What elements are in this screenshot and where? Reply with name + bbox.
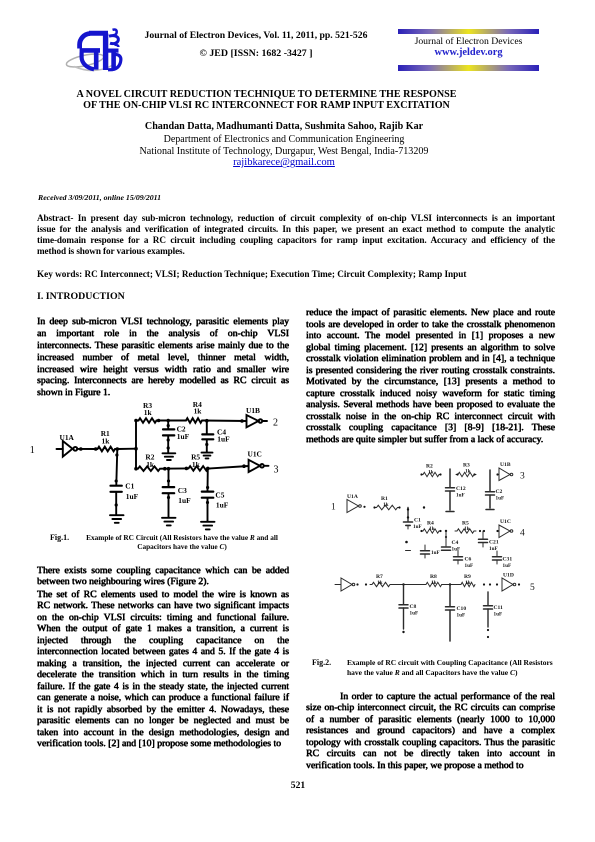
node dot U2A output (356, 583, 358, 585)
node dot C2 tap (166, 419, 170, 423)
node dot U1A output (363, 506, 365, 508)
ground below C3 (162, 518, 176, 526)
received line (38, 193, 161, 202)
right banner title (398, 36, 539, 47)
coupling capacitor C21 (482, 531, 484, 539)
section heading I. INTRODUCTION (37, 291, 125, 302)
right banner url (398, 47, 539, 58)
svg-text:U1A: U1A (60, 433, 75, 442)
ground below C5 (201, 522, 215, 530)
node dot row B b (483, 530, 485, 532)
node dot R2 right (439, 473, 441, 475)
svg-text:1uF: 1uF (178, 496, 191, 505)
node dot C3 tap (167, 467, 171, 471)
node dot R2 left (420, 473, 422, 475)
node dot below C11 a (487, 629, 489, 631)
svg-text:U1B: U1B (246, 406, 260, 415)
svg-text:C12: C12 (456, 486, 466, 492)
svg-text:C8: C8 (410, 604, 417, 610)
op-amp buffer U1B (499, 468, 510, 481)
wire R3 to R4 (158, 420, 185, 422)
svg-text:C11: C11 (494, 605, 504, 611)
op-amp buffer U1B (247, 415, 259, 427)
svg-text:C3: C3 (178, 486, 187, 495)
left column paragraph 2 (37, 565, 289, 588)
svg-text:C1: C1 (414, 518, 421, 524)
op-amp buffer U2A (bottom line driver) (335, 584, 341, 586)
svg-text:3: 3 (520, 472, 525, 482)
wire R1 to riser (118, 448, 137, 450)
svg-text:1uF: 1uF (494, 612, 503, 618)
email (25, 157, 543, 168)
op-amp buffer U1C (499, 525, 510, 538)
resistor R3 (456, 472, 476, 476)
resistor R1 (95, 447, 118, 452)
svg-text:C4: C4 (452, 540, 459, 546)
node dot wire c (496, 583, 498, 585)
node dot R3 right (473, 473, 475, 475)
svg-text:1uF: 1uF (410, 611, 419, 617)
op-amp buffer U1A (347, 500, 359, 513)
node dot riser bottom (134, 467, 138, 471)
svg-text:3: 3 (274, 465, 279, 476)
svg-text:1k: 1k (428, 470, 434, 476)
node dot U1B input (240, 419, 244, 423)
resistor R4 (185, 418, 204, 423)
op-amp buffer U1C (249, 460, 260, 472)
right column paragraph 1 (306, 307, 555, 445)
node dot U1C input (242, 464, 246, 468)
node dot R1 left (373, 506, 375, 508)
svg-text:1uF: 1uF (456, 493, 465, 499)
resistor R5 (455, 529, 476, 533)
svg-text:U1C: U1C (500, 519, 511, 525)
node dot R3 right (157, 419, 161, 423)
wire riser vertical (135, 421, 137, 469)
node dot R2 right (163, 467, 167, 471)
svg-text:1k: 1k (465, 580, 471, 586)
resistor R2 (136, 466, 162, 471)
svg-text:C10: C10 (457, 606, 467, 612)
logo blue glyph (80, 29, 121, 70)
node dot C4 tap (205, 419, 209, 423)
wire U1C output to node 3 (264, 465, 269, 467)
left column paragraph 1 (37, 316, 289, 399)
svg-text:1k: 1k (429, 526, 435, 532)
node dot row B a (479, 530, 481, 532)
node dot wire a (483, 583, 485, 585)
svg-text:1k: 1k (383, 502, 389, 508)
node dot C5 tap (206, 467, 210, 471)
header line 2 (100, 48, 412, 59)
figure 1: RC circuit schematic (25, 398, 295, 533)
page number (288, 780, 308, 791)
ground below C1 (110, 515, 124, 523)
svg-text:U1C: U1C (248, 450, 262, 459)
svg-text:1uF: 1uF (496, 496, 505, 502)
wire R7 to R8 (392, 584, 424, 586)
abstract (37, 213, 555, 257)
wire input stub node 1 (57, 448, 63, 450)
capacitor C2 (489, 470, 491, 491)
capacitor C2 (167, 421, 169, 429)
wire U1A output (77, 448, 95, 450)
svg-text:C21: C21 (489, 540, 499, 546)
resistor R9 (459, 582, 475, 586)
resistor R7 (370, 582, 392, 586)
svg-text:U1D: U1D (503, 573, 514, 579)
svg-text:1uF: 1uF (217, 434, 230, 443)
svg-text:1uF: 1uF (216, 501, 229, 510)
node dot C8 tap (402, 583, 404, 585)
ground tick below C1 (406, 550, 411, 552)
affiliation 2 (25, 146, 543, 157)
svg-text:1uF: 1uF (503, 563, 512, 569)
svg-text:C2: C2 (496, 489, 503, 495)
svg-text:C1: C1 (125, 482, 134, 491)
node dot R4 left (420, 530, 422, 532)
header line 1 (100, 30, 412, 41)
svg-text:C31: C31 (503, 557, 513, 563)
svg-text:1uF: 1uF (413, 524, 422, 530)
capacitor C4 (445, 531, 447, 546)
ground below C4 (202, 453, 213, 459)
op-amp buffer U1A (63, 441, 73, 457)
capacitor C4 (206, 421, 208, 434)
svg-text:1k: 1k (102, 437, 111, 446)
ground bar below C2 (486, 509, 494, 511)
figure 2: RC circuit with coupling capacitance schematic (325, 452, 540, 652)
left column paragraph 3 (37, 589, 289, 750)
svg-text:5: 5 (530, 583, 535, 593)
capacitor C1 (116, 449, 117, 485)
capacitor C3 (left small) (424, 545, 426, 550)
svg-text:1k: 1k (465, 469, 471, 475)
node dot U1D output (518, 583, 520, 585)
capacitor C10 (449, 585, 451, 607)
node dot below C1 (405, 541, 408, 544)
node dot riser junction (134, 447, 138, 451)
node dot U1A output (79, 447, 83, 451)
node dot wire b (489, 583, 491, 585)
ground below C2 (163, 453, 176, 460)
svg-text:4: 4 (520, 529, 525, 539)
capacitor C3 (168, 469, 170, 486)
svg-text:C5: C5 (215, 490, 224, 499)
right column paragraph 2 (306, 691, 555, 772)
svg-text:1uF: 1uF (177, 432, 190, 441)
wire R4 to U1B (204, 420, 247, 423)
svg-text:1k: 1k (431, 580, 437, 586)
capacitor C6 (457, 551, 459, 556)
node dot riser top (134, 419, 138, 423)
right banner top gradient bar (398, 29, 539, 34)
coupling capacitor C12 (449, 469, 451, 487)
node dot R4 right (439, 530, 441, 532)
resistor R3 (137, 418, 158, 423)
wire R5 to U1C (210, 466, 249, 468)
capacitor C11 (487, 592, 489, 605)
svg-text:1k: 1k (144, 408, 153, 417)
svg-text:U1A: U1A (347, 494, 358, 500)
svg-text:1uF: 1uF (431, 550, 440, 556)
capacitor C8 (403, 585, 405, 605)
svg-text:1k: 1k (146, 460, 155, 469)
node dot C4 stem (445, 536, 447, 538)
keywords (37, 269, 555, 280)
coupling capacitor C31 (496, 551, 498, 556)
svg-text:1uF: 1uF (457, 613, 466, 619)
svg-text:1k: 1k (464, 526, 470, 532)
node dot below C11 b (487, 636, 489, 638)
gray swoosh arc (74, 66, 112, 71)
svg-text:1uF: 1uF (465, 563, 474, 569)
node dot below C8 (402, 631, 404, 633)
capacitor C5 (207, 468, 209, 490)
wire R2 to R5 (162, 467, 187, 469)
paper title (8, 90, 525, 111)
svg-text:1uF: 1uF (489, 546, 498, 552)
gray swoosh ellipse (65, 51, 104, 69)
node dot bottom wire (365, 583, 367, 585)
svg-text:1uF: 1uF (452, 547, 461, 553)
resistor R1 (374, 505, 400, 510)
node dot C10 tap (449, 583, 451, 585)
node dot end (423, 506, 425, 508)
svg-text:1k: 1k (194, 407, 203, 416)
svg-text:1uF: 1uF (126, 492, 139, 501)
op-amp buffer U1D (502, 578, 513, 591)
affiliation 1 (25, 134, 543, 145)
capacitor C1 (407, 508, 409, 522)
svg-text:1k: 1k (192, 460, 201, 469)
ground bar below C12 (446, 511, 454, 513)
node dot C1 tap (116, 447, 120, 451)
fig 2 caption (312, 658, 372, 668)
node dot R5 left (185, 467, 189, 471)
svg-text:1k: 1k (377, 580, 383, 586)
node dot U1C input (496, 530, 498, 532)
logo JED (62, 24, 132, 80)
resistor R5 (187, 466, 211, 471)
node dot C4 tap (445, 530, 447, 532)
svg-text:1: 1 (30, 445, 35, 456)
svg-text:C6: C6 (465, 557, 472, 563)
svg-text:1: 1 (331, 503, 336, 513)
node dot R1 left (94, 447, 98, 451)
node dot R1 right (398, 506, 400, 508)
wire R8 to R9 (442, 584, 459, 586)
resistor R8 (424, 582, 442, 586)
resistor R4 (421, 529, 441, 533)
right banner bottom gradient bar (398, 65, 539, 71)
authors (25, 121, 543, 132)
svg-text:U1B: U1B (500, 462, 511, 468)
fig 1 caption (50, 533, 110, 543)
node dot U1B input (496, 473, 498, 475)
svg-text:2: 2 (273, 417, 278, 428)
wire U1B output to node 2 (262, 420, 267, 422)
node dot R3 left (456, 473, 458, 475)
resistor R2 (421, 472, 441, 476)
